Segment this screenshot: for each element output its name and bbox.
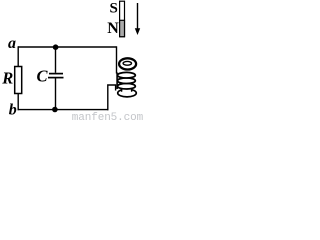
wire bottom (b to right) [18,109,109,111]
svg-text:S: S [110,1,118,17]
inductor top donut outer [119,58,136,69]
capacitor C bottom lead [55,78,57,109]
inductor coil bottom flange [118,89,137,97]
capacitor C bottom plate [48,77,64,79]
wire left upper (a down to R) [17,46,19,66]
capacitor C top lead [55,47,57,73]
wire top (a to right corner) [18,46,117,48]
svg-text:R: R [1,69,13,88]
magnet bar outline [120,1,125,37]
capacitor C top plate [49,73,63,75]
inductor winding 1 [118,72,136,78]
inductor winding left connector [116,73,118,90]
svg-text:C: C [37,67,49,86]
wire bottom-right step up to coil [108,85,116,110]
junction dot bottom [52,107,58,113]
inductor top donut inner [123,61,131,65]
magnet N pole gray [120,20,125,36]
resistor R box [15,67,22,94]
svg-text:N: N [107,20,119,37]
inductor winding 3 [118,83,136,89]
arrow head [135,28,140,35]
wire right vertical (top corner down to coil) [116,46,118,73]
inductor winding 2 [118,78,136,84]
inductor coil cylinder bottom [122,85,132,92]
svg-text:b: b [9,102,17,119]
arrow shaft (magnet moving down) [137,3,139,29]
svg-text:a: a [8,35,16,52]
junction dot top [53,44,59,50]
wire left lower (R down to b) [17,94,19,111]
svg-text:manfen5.com: manfen5.com [72,112,144,122]
